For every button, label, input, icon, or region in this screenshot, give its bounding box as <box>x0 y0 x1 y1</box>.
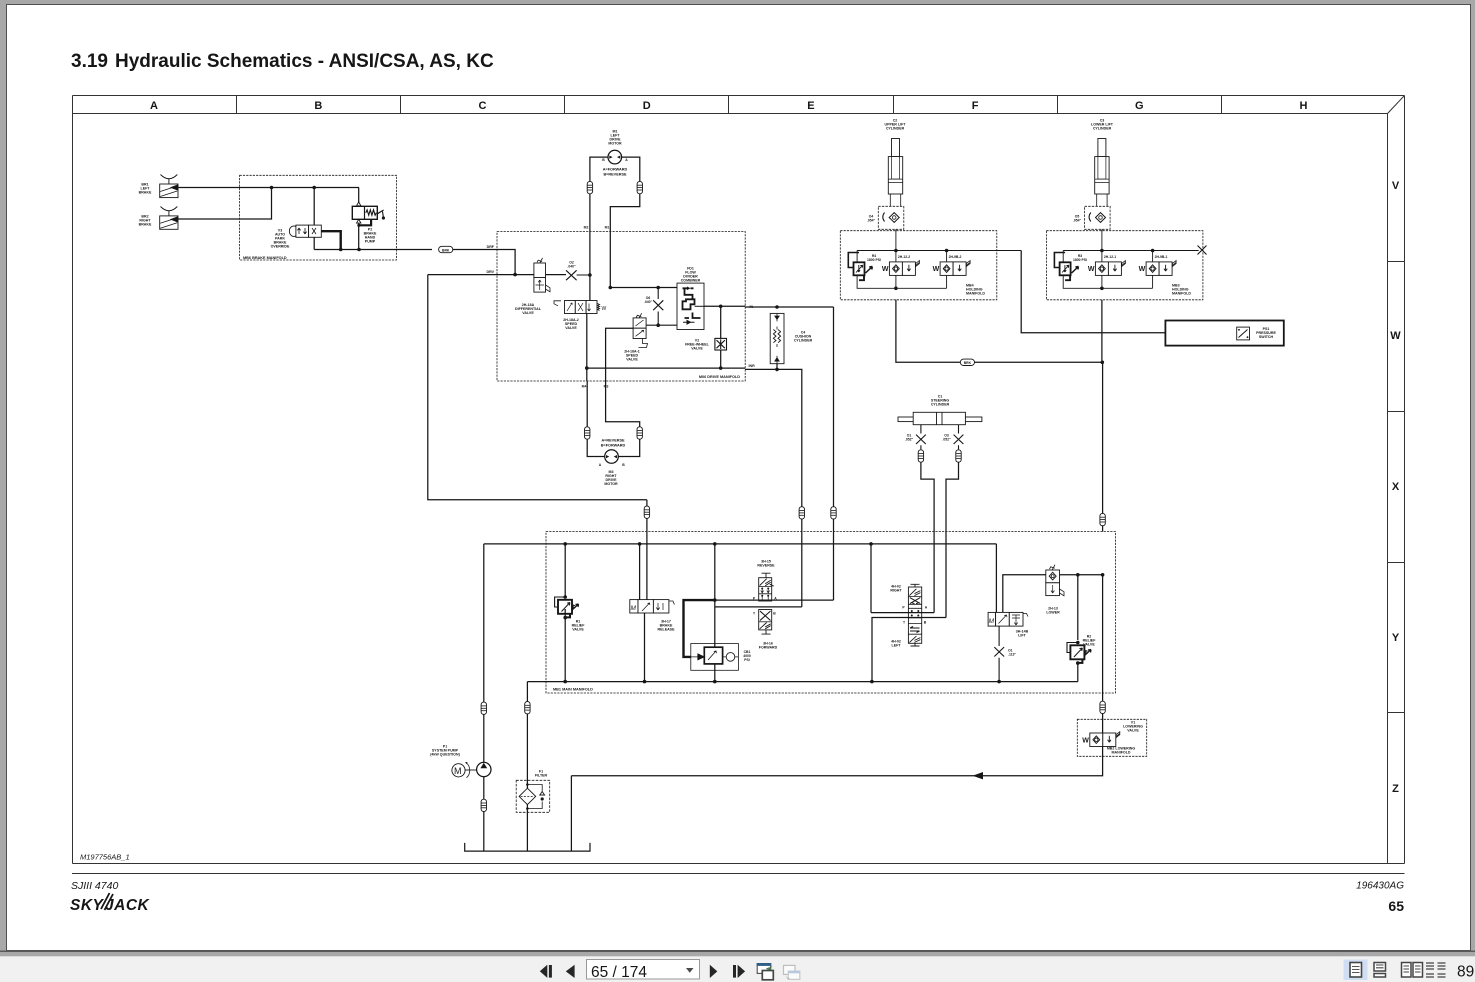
BRK hose coupling <box>439 246 453 252</box>
holding manifold MB4 dashed box <box>840 231 997 300</box>
differential valve 2H-18A <box>534 258 550 292</box>
wire brake manifold output <box>314 249 432 251</box>
svg-text:V: V <box>1392 180 1400 192</box>
free wheel valve V2 <box>720 306 722 338</box>
svg-text:1800 PSI: 1800 PSI <box>1073 258 1087 262</box>
svg-text:BRK: BRK <box>964 361 972 365</box>
svg-text:2H-12-1: 2H-12-1 <box>1104 255 1116 259</box>
lift valve 3H-14B <box>988 612 1028 626</box>
svg-text:X: X <box>1392 481 1400 493</box>
coupler on M3 line <box>637 427 642 439</box>
svg-text:RIGHT: RIGHT <box>890 589 902 593</box>
svg-text:COMBINER: COMBINER <box>681 279 701 283</box>
svg-text:FORWARD: FORWARD <box>759 646 778 650</box>
svg-text:PSI: PSI <box>744 658 750 662</box>
svg-text:M1: M1 <box>605 226 610 230</box>
brake manifold MB6 dashed box <box>240 175 397 260</box>
wire motor M1 port B down to M2 <box>590 157 608 230</box>
holding manifold MB3 dashed box <box>1046 231 1203 300</box>
label C3 LOWER LIFT CYLINDER <box>1091 119 1114 131</box>
solenoid valve 2H-9B-2 <box>933 261 971 276</box>
wire steering right down <box>946 462 959 617</box>
label 2H-18A DIFFERENTIAL VALVE <box>515 303 542 315</box>
hand pump P2 <box>352 188 385 250</box>
page number combobox <box>587 960 700 980</box>
coupler on M1 line <box>637 181 642 193</box>
label MB2 LOWERING MANIFOLD <box>1107 747 1136 755</box>
BRK hose coupling lift line <box>960 359 974 365</box>
label R1 RELIEF VALVE <box>572 620 586 632</box>
svg-text:C: C <box>479 100 487 112</box>
frame column letters <box>150 100 1308 112</box>
label 3H-15 REVERSE <box>757 560 775 568</box>
wire INR internal <box>587 367 745 369</box>
svg-text:A: A <box>625 158 628 162</box>
wire DRF internal <box>497 250 515 275</box>
motor M3 <box>605 450 619 464</box>
wire steering left down <box>921 462 934 612</box>
label FD1 FLOW DIVIDER COMBINER <box>681 267 701 283</box>
label C2 UPPER LIFT CYLINDER <box>885 119 907 131</box>
svg-text:CYLINDER: CYLINDER <box>1093 127 1112 131</box>
svg-text:B: B <box>622 463 625 467</box>
svg-text:VALVE: VALVE <box>572 628 584 632</box>
wire DRV internal to differential valve <box>428 274 566 276</box>
svg-text:REVERSE: REVERSE <box>757 564 775 568</box>
svg-text:MOTOR: MOTOR <box>608 142 622 146</box>
svg-text:MB6 BRAKE MANIFOLD: MB6 BRAKE MANIFOLD <box>243 256 287 260</box>
wire motor M3 port A up to M4 <box>587 381 605 457</box>
label 4H-02 RIGHT <box>890 585 902 593</box>
label BR2 RIGHT BRAKE <box>139 215 152 227</box>
SKYJACK logo <box>70 893 151 914</box>
svg-text:T: T <box>903 621 906 625</box>
label O5 .054 <box>1073 215 1082 223</box>
lowering valve V1 <box>1082 732 1120 747</box>
wire INR extension down <box>745 369 802 507</box>
label A=FORWARD B=REVERSE <box>603 168 628 177</box>
two page mode button <box>1402 963 1423 978</box>
svg-text:SWITCH: SWITCH <box>1259 335 1274 339</box>
svg-text:MANIFOLD: MANIFOLD <box>966 292 985 296</box>
svg-text:2H-9B-2: 2H-9B-2 <box>949 255 962 259</box>
single page mode button (selected) <box>1344 960 1368 981</box>
svg-text:PUMP: PUMP <box>365 240 376 244</box>
svg-text:LOWER: LOWER <box>1046 611 1060 615</box>
wire lowering feed line <box>1102 362 1104 514</box>
svg-text:B: B <box>314 100 322 112</box>
wire FD1 to IN port <box>704 305 745 307</box>
svg-text:.113": .113" <box>1008 653 1016 657</box>
svg-text:RELEASE: RELEASE <box>658 628 676 632</box>
wire motor M3 port B up to M3 <box>606 381 640 457</box>
wire V2 to INR line <box>720 350 722 368</box>
return flow arrow <box>973 772 984 779</box>
svg-text:FILTER: FILTER <box>535 774 548 778</box>
drive control valve 3H-15/3H-16 <box>759 573 774 634</box>
relief valve R3 <box>1054 253 1078 281</box>
drive manifold dashed box <box>497 232 745 382</box>
wire pump suction <box>483 777 485 800</box>
label BR1 LEFT BRAKE <box>139 183 152 195</box>
two page scrolling mode button <box>1426 963 1446 977</box>
label M1 LEFT DRIVE MOTOR <box>608 130 622 146</box>
svg-text:D: D <box>643 100 651 112</box>
svg-text:BRK: BRK <box>442 248 450 252</box>
label F1 FILTER <box>535 770 548 778</box>
svg-text:VALVE: VALVE <box>522 311 534 315</box>
svg-text:VALVE: VALVE <box>1083 643 1095 647</box>
label M3 RIGHT DRIVE MOTOR <box>604 470 618 486</box>
steering cylinder C1 <box>898 412 982 424</box>
lower valve 2H-13 <box>1046 565 1064 596</box>
orifice O2 <box>566 270 590 280</box>
footer separator <box>72 873 1405 875</box>
wire steering P from bus <box>871 544 934 613</box>
pressure switch PS1 box <box>1165 321 1283 346</box>
svg-text:LIFT: LIFT <box>1018 634 1026 638</box>
svg-text:MANIFOLD: MANIFOLD <box>1172 292 1191 296</box>
svg-text:A: A <box>925 606 928 610</box>
svg-text:VALVE: VALVE <box>691 347 703 351</box>
svg-text:B: B <box>773 612 776 616</box>
brake release valve 3H-17 <box>630 600 675 613</box>
svg-text:89: 89 <box>1457 964 1474 981</box>
check valve O5 box <box>1085 206 1111 229</box>
svg-text:.040": .040" <box>644 300 653 304</box>
next page button <box>710 965 718 978</box>
tank <box>465 843 590 851</box>
svg-text:M2: M2 <box>584 226 589 230</box>
orifice O1 .052 <box>916 425 926 450</box>
svg-text:VALVE: VALVE <box>626 358 638 362</box>
coupler on M4 line <box>585 427 590 439</box>
svg-text:CYLINDER: CYLINDER <box>931 403 950 407</box>
svg-text:T: T <box>753 612 756 616</box>
wire motor M1 port A down to M1 <box>610 157 640 230</box>
label 2H-18A-2 SPEED VALVE <box>563 318 579 330</box>
orifice O3 .052 <box>954 425 964 450</box>
plugged port X <box>1198 246 1207 255</box>
label PS1 PRESSURE SWITCH <box>1256 327 1276 339</box>
svg-text:A=FORWARD: A=FORWARD <box>603 168 628 172</box>
svg-text:Y: Y <box>1392 632 1400 644</box>
wire lower valve to lowering line <box>1060 574 1103 576</box>
svg-text:1800 PSI: 1800 PSI <box>867 258 881 262</box>
svg-text:Z: Z <box>1392 783 1399 795</box>
svg-text:.054": .054" <box>867 219 876 223</box>
svg-text:2H-9B-1: 2H-9B-1 <box>1155 255 1168 259</box>
label C1 STEERING CYLINDER <box>931 395 950 407</box>
wire CB1 branch <box>714 544 716 600</box>
svg-text:.054": .054" <box>1073 219 1082 223</box>
label P2 BRAKE HAND PUMP <box>364 228 377 244</box>
svg-text:M3: M3 <box>604 385 609 389</box>
wire bus drop to lift valve <box>995 544 997 613</box>
svg-text:MOTOR: MOTOR <box>604 482 618 486</box>
speed valve 2H-18A-1 <box>633 313 647 347</box>
label 2H-18A-1 SPEED VALVE <box>624 350 640 362</box>
wire valve B line to INR drop <box>715 606 802 608</box>
svg-text:VALVE: VALVE <box>565 326 577 330</box>
main manifold dashed box <box>546 532 1116 694</box>
pump P1 <box>465 762 491 776</box>
wire MB4 output down <box>896 300 1103 363</box>
solenoid valve 2H-12-1 <box>1088 261 1126 276</box>
svg-text:M: M <box>454 766 462 776</box>
svg-text:65: 65 <box>1388 898 1404 914</box>
svg-text:CYLINDER: CYLINDER <box>886 127 905 131</box>
svg-text:.040": .040" <box>567 265 576 269</box>
cylinder C2 <box>888 139 902 207</box>
svg-text:M4: M4 <box>582 385 587 389</box>
previous view button <box>757 963 774 980</box>
wire M1 internal <box>610 230 677 288</box>
wire cushion to INR <box>776 364 778 370</box>
svg-text:E: E <box>807 100 814 112</box>
svg-text:.052": .052" <box>942 438 951 442</box>
wire valve A line to IN drop <box>715 599 834 601</box>
label V3 AUTO PARK BRAKE OVERRIDE <box>271 229 290 249</box>
label A=REVERSE B=FORWARD <box>601 439 626 448</box>
filter F1 <box>516 780 550 812</box>
coupler on M2 line <box>587 181 592 193</box>
wire lowering valve to return <box>571 747 1102 776</box>
svg-text:H: H <box>1300 100 1308 112</box>
label 3H-16 FORWARD <box>759 642 778 650</box>
label MB4 HOLDING MANIFOLD <box>966 284 985 296</box>
scrolling page mode button <box>1374 963 1386 978</box>
svg-text:OVERRIDE: OVERRIDE <box>271 245 290 249</box>
toolbar top shadow line <box>0 951 1475 953</box>
svg-text:DRF: DRF <box>487 245 495 249</box>
svg-text:VALVE: VALVE <box>1127 729 1139 733</box>
svg-text:F: F <box>972 100 979 112</box>
last page button <box>733 965 736 978</box>
flow divider FD1 <box>677 283 704 329</box>
wire thick brake line to CB1 <box>684 600 715 657</box>
svg-text:SJIII 4740: SJIII 4740 <box>71 880 118 892</box>
wire BR2 up to BR1 wire <box>178 188 272 220</box>
wire main manifold to filter <box>526 682 528 702</box>
wire V3 output (thick) <box>321 231 340 249</box>
svg-text:MANIFOLD: MANIFOLD <box>1112 751 1131 755</box>
label V1 LOWERING VALVE <box>1123 721 1143 733</box>
svg-text:B=FORWARD: B=FORWARD <box>601 444 626 448</box>
svg-text:65 / 174: 65 / 174 <box>591 964 647 981</box>
counterbalance CB1 <box>691 644 739 671</box>
orifice O1 .113 <box>994 626 1004 682</box>
label 3H-14B LIFT <box>1016 630 1029 638</box>
pressure switch PS1 symbol <box>1237 327 1250 340</box>
relief valve R1 <box>564 544 566 597</box>
label V2 FREE-WHEEL VALVE <box>685 339 710 351</box>
svg-text:DRV: DRV <box>486 270 494 274</box>
svg-text:W: W <box>602 306 607 312</box>
svg-text:196430AG: 196430AG <box>1356 881 1404 892</box>
wire DRV long feed line <box>428 275 647 500</box>
wire lift valve to lower valve <box>1003 575 1046 613</box>
lowering manifold dashed box <box>1077 719 1146 756</box>
svg-text:SKY: SKY <box>70 897 105 914</box>
relief valve R2 <box>1067 641 1091 665</box>
cushion cylinder C4 <box>770 313 784 363</box>
svg-text:B: B <box>924 621 927 625</box>
svg-text:.052": .052" <box>905 438 914 442</box>
orifice O6 <box>646 288 677 326</box>
wire brake release feeds <box>639 544 641 600</box>
svg-text:M06 DRIVE MANIFOLD: M06 DRIVE MANIFOLD <box>699 375 740 379</box>
next view button (disabled) <box>784 965 801 980</box>
svg-text:B=REVERSE: B=REVERSE <box>603 173 627 177</box>
speed valve 2H-18A-2 <box>554 301 607 314</box>
svg-text:CYLINDER: CYLINDER <box>794 339 813 343</box>
label 4H-02 LEFT <box>891 640 901 648</box>
label R2 RELIEF VALVE <box>1083 635 1097 647</box>
label MB3 HOLDING MANIFOLD <box>1172 284 1191 296</box>
svg-text:MB1 MAIN MANIFOLD: MB1 MAIN MANIFOLD <box>553 688 593 692</box>
steering valve 4H-02 <box>908 584 921 646</box>
label CB1 4000 PSI <box>743 650 751 662</box>
svg-text:P: P <box>902 606 905 610</box>
svg-text:JACK: JACK <box>105 897 151 914</box>
wire IN extension down <box>833 307 835 507</box>
svg-text:G: G <box>1135 100 1144 112</box>
wire tank bus <box>527 681 1077 683</box>
svg-text:2H-12-2: 2H-12-2 <box>898 255 910 259</box>
label O1 .113 <box>1008 649 1016 657</box>
frame row letters <box>1390 180 1401 795</box>
check valve O4 box <box>878 206 904 229</box>
svg-text:A=REVERSE: A=REVERSE <box>601 439 625 443</box>
wire BRK to drive manifold DRF <box>453 249 497 251</box>
solenoid valve 2H-12-2 <box>882 261 920 276</box>
previous page button <box>566 965 575 978</box>
coupler steering right <box>956 450 961 462</box>
motor M1 <box>608 150 622 164</box>
svg-text:BRAKE: BRAKE <box>139 191 152 195</box>
frame header column dividers <box>237 96 1222 114</box>
wire MB3 internal rails <box>1063 229 1199 288</box>
svg-text:BRAKE: BRAKE <box>139 223 152 227</box>
label 2H-13 LOWER <box>1046 607 1060 615</box>
solenoid valve 2H-9B-1 <box>1139 261 1177 276</box>
svg-text:W: W <box>1390 330 1401 342</box>
wire IN to cushion cylinder <box>745 306 833 308</box>
label O6 .040 <box>644 296 653 304</box>
label O2 .040 <box>567 261 576 269</box>
brake BR2 <box>160 207 178 230</box>
wire lowering line through manifold <box>1102 575 1104 693</box>
wire BR1 to brake manifold <box>178 187 359 189</box>
label 3H-17 BRAKE RELEASE <box>658 620 676 632</box>
frame header row <box>73 96 1405 864</box>
wire MB4 internal rails <box>857 229 1021 288</box>
wire M4 internal <box>586 314 588 382</box>
wire pump pressure line <box>483 544 485 703</box>
wire M2 internal <box>589 230 591 301</box>
label C4 CUSHION CYLINDER <box>794 331 813 343</box>
wire R2 branch <box>1077 575 1079 640</box>
svg-text:A: A <box>150 100 158 112</box>
wire steering T to tank bus <box>872 618 946 682</box>
wire pressure bus <box>484 543 997 545</box>
svg-text:M: M <box>989 618 995 625</box>
svg-text:LEFT: LEFT <box>892 644 902 648</box>
svg-text:A: A <box>599 463 602 467</box>
svg-text:B: B <box>602 158 605 162</box>
label R3 1800 PSI <box>1073 254 1087 262</box>
label R4 1800 PSI <box>867 254 881 262</box>
svg-text:M: M <box>631 605 637 612</box>
coupler steering left <box>918 450 923 462</box>
relief valve R4 <box>848 253 872 281</box>
frame right row dividers <box>1388 262 1405 713</box>
label O4 .054 <box>867 215 876 223</box>
wire MB3 output down <box>1101 300 1103 363</box>
svg-text:(4kW QUESTION): (4kW QUESTION) <box>430 753 460 757</box>
cylinder C3 <box>1095 139 1109 207</box>
electric motor M <box>452 762 470 778</box>
wire V3 feed from BR wire <box>313 188 315 250</box>
svg-text:M197756AB_1: M197756AB_1 <box>80 853 130 862</box>
label P1 SYSTEM PUMP <box>430 745 460 757</box>
brake BR1 <box>160 175 178 198</box>
frame right label column <box>73 96 1405 864</box>
first page button <box>540 965 548 978</box>
valve V3 auto park brake override <box>289 225 321 237</box>
wire M3 internal <box>606 328 634 381</box>
wire MB4 to pressure switch <box>1021 251 1165 333</box>
svg-text:INR: INR <box>749 364 756 368</box>
wire return line down to tank <box>570 776 572 851</box>
coupler on lowering line <box>1100 513 1105 525</box>
